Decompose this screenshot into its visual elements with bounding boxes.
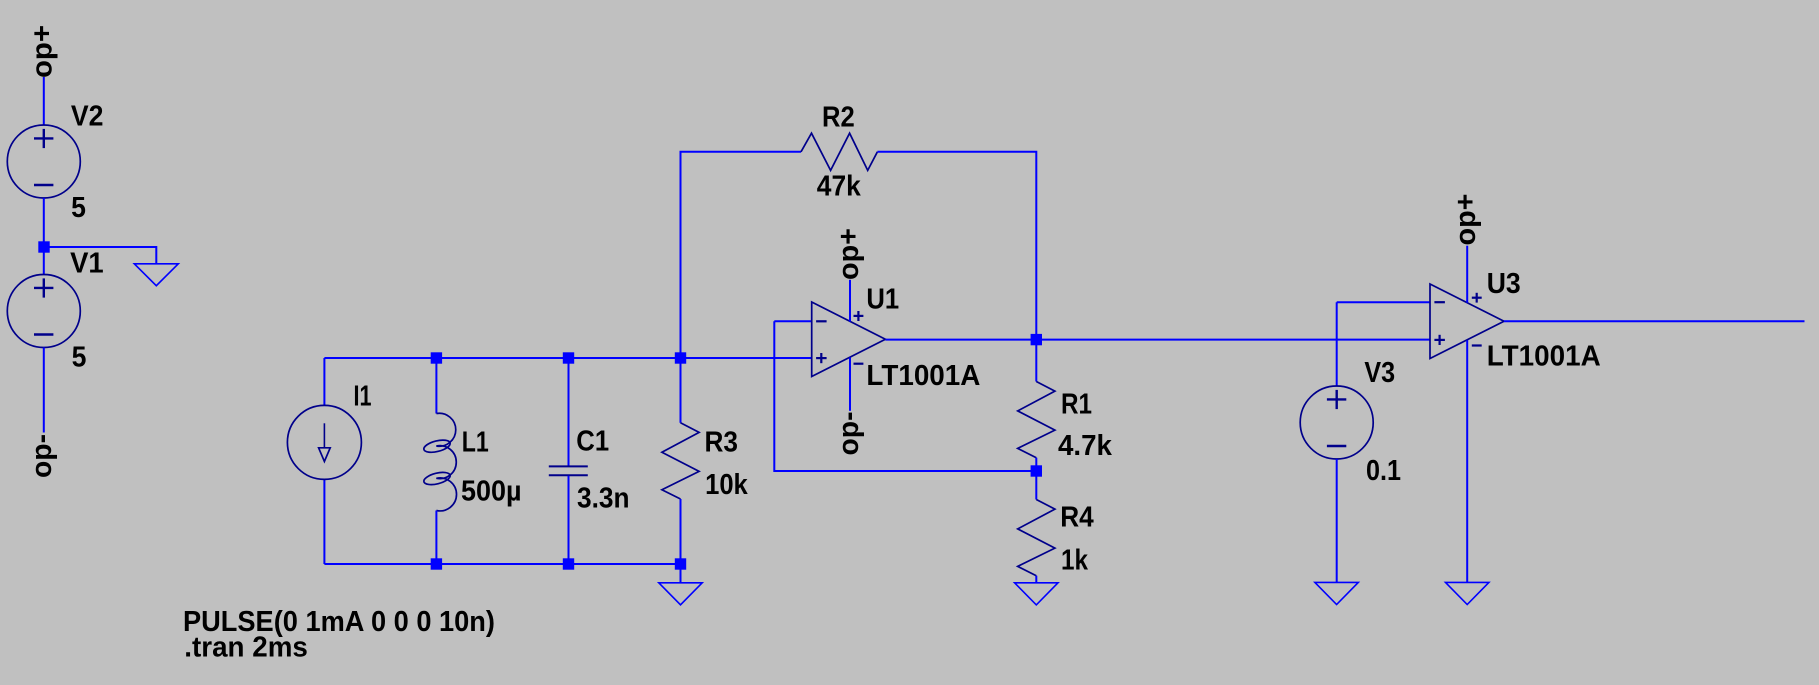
svg-text:4.7k: 4.7k bbox=[1058, 430, 1113, 462]
ground G5 bbox=[1446, 582, 1489, 604]
svg-text:op+: op+ bbox=[833, 228, 865, 280]
wire V1 bottom to op- flag bbox=[43, 348, 45, 433]
junction C1 top bbox=[563, 352, 574, 363]
wire junction to ground G2 bbox=[680, 564, 682, 582]
wire feedback from R1/R4 divider to U1 inverting input bbox=[774, 321, 1036, 471]
wire R2 right leg bbox=[877, 152, 1036, 340]
junction R1/R4 divider bbox=[1031, 465, 1042, 476]
voltage source V1 bbox=[7, 275, 80, 348]
wire U3 output bbox=[1504, 320, 1805, 322]
wire C1 top lead bbox=[568, 358, 570, 466]
svg-text:1k: 1k bbox=[1061, 545, 1089, 577]
svg-text:op+: op+ bbox=[1450, 194, 1482, 246]
wire R2 left leg bbox=[681, 152, 802, 358]
wire I1 bottom to rail bbox=[323, 479, 325, 564]
svg-text:R2: R2 bbox=[822, 101, 855, 133]
junction R3 bottom bbox=[675, 558, 686, 569]
junction main node (R2/R3 tap) bbox=[675, 352, 686, 363]
wire C1 bottom lead bbox=[568, 476, 570, 564]
junction L1 top bbox=[431, 352, 442, 363]
wire R3 top lead bbox=[680, 358, 682, 423]
resistor R4 bbox=[1018, 500, 1055, 576]
svg-text:LT1001A: LT1001A bbox=[1487, 341, 1601, 373]
wire junction to ground G1 bbox=[44, 247, 156, 264]
junction V1/V2 midpoint bbox=[38, 241, 49, 252]
svg-text:5: 5 bbox=[72, 342, 87, 374]
svg-text:R1: R1 bbox=[1061, 389, 1092, 421]
wire U1 V- pin bbox=[849, 358, 851, 411]
svg-text:I1: I1 bbox=[354, 380, 372, 412]
svg-text:500µ: 500µ bbox=[461, 475, 522, 507]
wire R4 bottom lead bbox=[1035, 576, 1037, 583]
ground G1 bbox=[134, 264, 178, 286]
svg-text:V1: V1 bbox=[70, 248, 104, 280]
wire U3 inverting input bbox=[1337, 301, 1430, 303]
wire R3 bottom lead bbox=[680, 499, 682, 564]
wire R1 top lead bbox=[1035, 340, 1037, 382]
junction U1 output bbox=[1031, 334, 1042, 345]
svg-text:LT1001A: LT1001A bbox=[866, 360, 980, 392]
wire L1 bottom lead bbox=[435, 511, 437, 565]
wire V3 bottom to ground G4 bbox=[1336, 459, 1338, 582]
wire V3 top to U3 inverting input bbox=[1336, 302, 1338, 386]
junction C1 bottom bbox=[563, 558, 574, 569]
wire bottom rail bbox=[324, 563, 680, 565]
svg-text:V2: V2 bbox=[71, 101, 104, 133]
voltage source V3 bbox=[1300, 386, 1373, 459]
svg-text:5: 5 bbox=[71, 192, 86, 224]
svg-text:L1: L1 bbox=[462, 426, 489, 458]
resistor R2 bbox=[801, 133, 877, 170]
svg-text:10k: 10k bbox=[705, 469, 748, 501]
svg-text:op+: op+ bbox=[27, 25, 59, 78]
ground G4 bbox=[1315, 582, 1358, 604]
wire U1 output to U3 noninverting input bbox=[885, 339, 1430, 341]
wire U3 V- pin to ground G5 bbox=[1466, 340, 1468, 582]
current source I1 bbox=[287, 405, 361, 479]
ground G3 bbox=[1015, 583, 1058, 605]
wire rail to I1 top bbox=[323, 358, 325, 406]
svg-text:47k: 47k bbox=[817, 171, 862, 203]
wire U1 inverting input bbox=[774, 320, 811, 322]
resistor R3 bbox=[662, 423, 699, 499]
svg-text:C1: C1 bbox=[576, 426, 609, 458]
wire op+ flag to V2 top bbox=[43, 77, 45, 125]
svg-text:0.1: 0.1 bbox=[1366, 455, 1401, 487]
wire R1 bottom lead bbox=[1035, 458, 1037, 471]
svg-text:.tran 2ms: .tran 2ms bbox=[184, 632, 308, 664]
inductor L1 bbox=[423, 413, 457, 511]
resistor R1 bbox=[1018, 382, 1055, 458]
capacitor C1 bbox=[549, 466, 588, 475]
svg-text:op-: op- bbox=[26, 434, 58, 478]
wire U1 V+ pin bbox=[849, 280, 851, 322]
wire V2 bottom to V1 top bbox=[43, 198, 45, 275]
junction L1 bottom bbox=[431, 558, 442, 569]
ground G2 bbox=[659, 583, 702, 605]
wire top rail / main input node bbox=[324, 357, 811, 359]
wire L1 top lead bbox=[435, 358, 437, 414]
svg-text:R4: R4 bbox=[1060, 502, 1094, 534]
svg-text:U3: U3 bbox=[1487, 268, 1521, 300]
svg-text:op-: op- bbox=[833, 412, 865, 456]
wire U3 V+ pin bbox=[1466, 246, 1468, 303]
svg-text:R3: R3 bbox=[705, 427, 739, 459]
svg-text:3.3n: 3.3n bbox=[577, 483, 630, 515]
op-amp U3 bbox=[1430, 284, 1504, 359]
svg-text:V3: V3 bbox=[1364, 357, 1395, 389]
op-amp U1 bbox=[812, 302, 886, 377]
wire R4 top lead bbox=[1035, 471, 1037, 500]
svg-text:U1: U1 bbox=[866, 283, 899, 315]
voltage source V2 bbox=[7, 125, 80, 198]
